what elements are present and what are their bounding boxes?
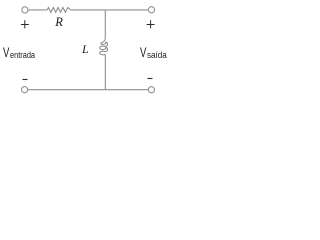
wire: inductor bottom to bottom rail [104,56,106,90]
label L [82,42,89,57]
label R [55,15,63,30]
terminal top-left [22,7,28,13]
label V entrada [3,44,40,60]
resistor R1 zigzag [47,8,70,13]
wire bottom rail [28,89,148,91]
minus sign bottom-left [23,79,28,81]
inductor L1 coil [100,38,108,56]
terminal top-right [148,7,154,13]
plus sign left [21,20,29,28]
terminal bottom-left [22,87,28,93]
minus sign bottom-right [148,78,153,80]
wire top: resistor to right terminal [70,9,148,11]
plus sign right [147,20,155,28]
wire: vertical drop to inductor [104,10,106,38]
label V saida [140,44,169,60]
wire top-left: terminal to resistor [28,9,47,11]
terminal bottom-right [148,87,154,93]
